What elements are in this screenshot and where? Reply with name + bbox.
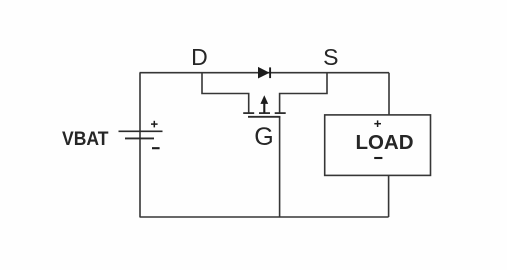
wire bottom rail (140, 216, 389, 218)
svg-text:LOAD: LOAD (355, 131, 413, 154)
svg-text:G: G (254, 123, 273, 151)
battery minus mark (152, 147, 160, 149)
svg-text:S: S (323, 44, 338, 70)
svg-text:D: D (191, 44, 208, 70)
battery plus mark (151, 121, 158, 128)
wire drain lead (202, 73, 249, 113)
load minus mark (374, 157, 382, 159)
battery VBAT plates (119, 131, 163, 138)
wire top rail D-S (140, 72, 390, 74)
wire LOAD bottom to bottom rail (388, 175, 390, 217)
wire source lead (280, 73, 327, 113)
wire left branch VBAT (139, 73, 141, 217)
transistor Q1 (MOSFET channel bars, body arrow, gate plate) (243, 95, 286, 117)
svg-text:VBAT: VBAT (62, 128, 109, 150)
load box (325, 115, 431, 175)
load plus mark (374, 120, 381, 127)
wire gate lead (279, 117, 281, 217)
wire right branch to LOAD top (388, 73, 390, 115)
diode D1 (body diode) (258, 67, 270, 79)
